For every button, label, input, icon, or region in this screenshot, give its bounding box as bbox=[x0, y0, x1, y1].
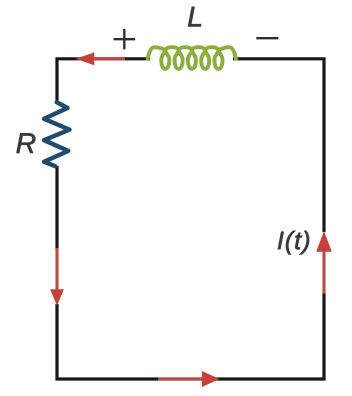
label L (inductor) bbox=[188, 7, 201, 27]
wire: top-right segment and right side down to current arrow bbox=[233, 59, 324, 232]
arrow (left wire, pointing down) bbox=[50, 248, 64, 306]
arrow (bottom wire, pointing right) bbox=[158, 371, 219, 387]
arrow (current direction, top wire, pointing left) bbox=[76, 52, 126, 65]
minus sign (polarity -) bbox=[256, 37, 278, 39]
wire: top-left segment bbox=[57, 59, 126, 104]
inductor L (green coil) bbox=[148, 47, 236, 69]
resistor R (blue zigzag) bbox=[44, 102, 70, 166]
arrow (right wire, pointing up, current I) bbox=[316, 231, 332, 294]
wire: left side between resistor and down-arrow bbox=[55, 166, 58, 250]
wire: right side below current arrow, bottom, left side up to down-arrow bbox=[57, 292, 324, 379]
plus sign (polarity +) bbox=[114, 29, 136, 49]
wire: top segment between arrow and inductor bbox=[120, 57, 150, 60]
label I(t) (current) bbox=[278, 231, 309, 255]
label R (resistor) bbox=[17, 133, 36, 152]
